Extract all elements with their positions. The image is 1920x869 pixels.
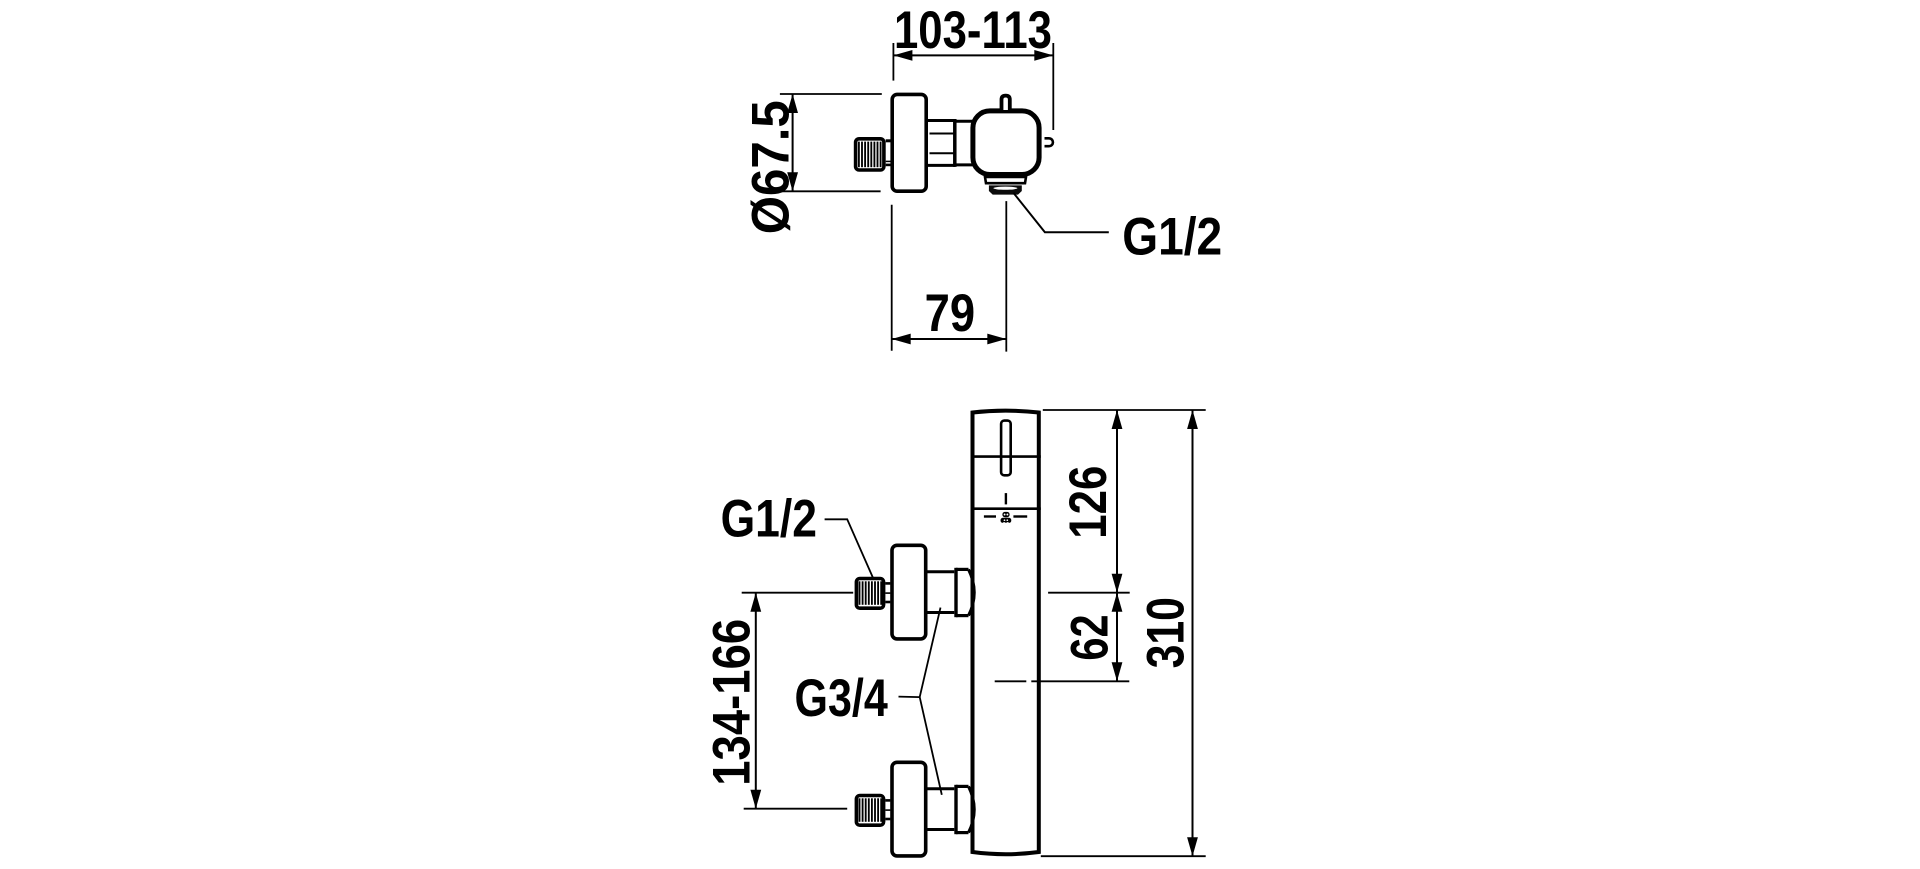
dim line 126 (1116, 410, 1118, 593)
dim line 103-113 (893, 54, 1053, 56)
hook clip (top view right) (1045, 138, 1053, 146)
valve body (side view) (973, 411, 1039, 855)
pipe (lower) (928, 789, 955, 830)
neck between nipple and flange (top view) (886, 141, 891, 165)
valve body (top view) (973, 111, 1039, 175)
thermostat 38 mark (984, 512, 1027, 523)
aerator dark band (top view) (989, 185, 1022, 194)
threaded nipple (upper) (856, 579, 883, 609)
dim line 79 (892, 338, 1007, 340)
ext line right of 103-113 (1052, 43, 1054, 130)
dim line Ø67.5 (792, 94, 794, 191)
dim line 134-166 (755, 593, 757, 809)
body divider line 1 (971, 455, 1041, 458)
neck (upper) (885, 583, 890, 602)
threaded nipple (top view) (856, 139, 884, 170)
shared ext line at upper connection center (1048, 592, 1130, 594)
svg-text:103-113: 103-113 (894, 1, 1052, 60)
dim line 62 (1116, 593, 1118, 682)
pipe section 2 (top view) (957, 121, 975, 165)
ext line left of 79 (891, 205, 893, 351)
ext line bottom of Ø67.5 (780, 190, 881, 192)
handle stub (top view) (1002, 96, 1010, 110)
ext line left of 103-113 (892, 43, 894, 81)
ext line right of 79 (outlet centerline) (1005, 201, 1007, 352)
coupling divider (top view) (953, 119, 957, 167)
ext line top of 134-166 (742, 592, 854, 594)
pipe section 1 (top view) (928, 121, 955, 166)
neck (lower) (885, 800, 890, 819)
temperature slot (1001, 421, 1011, 476)
leader line to G1/2 (top view) (1013, 193, 1108, 232)
svg-text:62: 62 (1060, 614, 1119, 660)
ext line bottom of body (for 310) (1041, 855, 1206, 857)
ext line top of body (for 126 / 310) (1043, 409, 1206, 411)
ext line bottom of 134-166 (744, 808, 848, 810)
wall flange (top view) (892, 94, 926, 191)
wall flange (upper) (892, 545, 926, 639)
coupling nut (lower) (956, 785, 974, 834)
svg-text:79: 79 (925, 284, 976, 343)
svg-text:G3/4: G3/4 (795, 669, 889, 728)
svg-text:134-166: 134-166 (703, 619, 762, 786)
svg-text:G1/2: G1/2 (1122, 207, 1222, 266)
body divider line 2 (971, 507, 1041, 510)
threaded nipple (lower) (856, 796, 883, 826)
leader G3/4 fork (899, 608, 942, 795)
ext line mid-body centerline (995, 680, 1027, 682)
coupling nut (upper) (956, 568, 974, 617)
leader G1/2 to upper nipple (825, 519, 873, 577)
outlet collar (top view) (985, 177, 1026, 183)
svg-text:310: 310 (1136, 597, 1195, 668)
wall flange (lower) (892, 762, 926, 856)
svg-text:126: 126 (1059, 466, 1118, 539)
svg-text:G1/2: G1/2 (721, 490, 817, 549)
ext line top of Ø67.5 (780, 93, 882, 95)
index dash below slot (1005, 493, 1007, 504)
pipe (upper) (928, 572, 955, 613)
dim line 310 (1192, 410, 1194, 856)
